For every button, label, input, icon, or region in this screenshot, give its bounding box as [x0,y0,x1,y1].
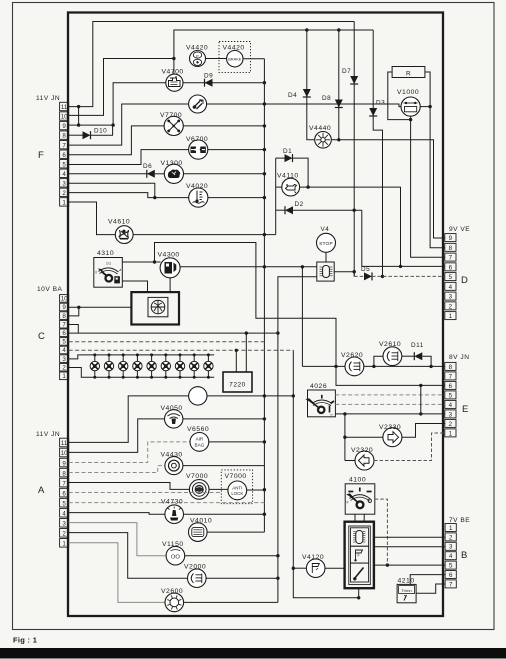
lamp V4420 BRAKE [227,51,243,67]
lamp L9 illumination [207,355,209,362]
wire cluster bottom stub [358,588,360,598]
svg-text:V1000: V1000 [397,89,419,96]
gauge V1000 clock [401,97,420,116]
wire V4050 to left bus [183,418,265,420]
svg-text:4: 4 [449,553,453,560]
diode D8 branch [338,30,340,140]
svg-text:4100: 4100 [349,477,366,484]
svg-text:V6700: V6700 [186,136,208,143]
bottom black bar [0,648,506,659]
dotted option box V4420 BRAKE [219,42,251,73]
connector F pins 11-1 [60,102,69,110]
wire V4110 left stub [276,186,282,188]
svg-text:ANTI: ANTI [232,485,242,490]
wire vertical D1-V4110-D2-V4610 node [275,158,277,235]
svg-text:V2330: V2330 [379,424,401,431]
svg-text:V2000: V2000 [184,564,206,571]
wire V4440 row to pin D9 bus [331,140,445,238]
wire D2 riser to pin D6 row [362,210,445,266]
svg-text:F: F [38,150,44,161]
wire pin C3 to lamp rail top [69,355,215,359]
svg-text:2: 2 [449,421,453,428]
svg-text:4210: 4210 [398,578,415,585]
wire bridge C8-C9 [69,307,79,316]
svg-text:5: 5 [449,392,453,399]
diode D4 branch to V4440 [307,30,315,140]
wire V2330 to pin E2 [402,424,445,438]
svg-text:V2600: V2600 [161,588,183,595]
svg-text:AIR: AIR [196,437,204,442]
wire V4610 row to D1/D2 vertical [133,234,276,236]
wire node riser to pin E6 path [155,243,445,386]
wire pin A10 to V4050 [69,419,165,453]
svg-text:V6560: V6560 [187,426,209,433]
wire pin F3 riser to V4020 row [69,183,155,197]
svg-text:9: 9 [449,235,453,242]
svg-text:R: R [406,70,411,77]
lamp V4050 lamp failure [165,410,183,428]
wire V7700 to left bus [183,125,264,127]
svg-text:3: 3 [449,294,453,301]
svg-text:V4300: V4300 [158,252,180,259]
wire circle to centre bus [207,395,293,397]
svg-text:4026: 4026 [310,383,327,390]
svg-text:V4050: V4050 [161,405,183,412]
svg-text:1: 1 [449,430,453,437]
wire V4730 to left bus [184,513,265,515]
svg-text:11V JN: 11V JN [36,431,60,438]
lamp V2320 left indicator [355,451,374,470]
wire V7000 to dotted option [209,488,228,490]
svg-text:3: 3 [62,520,66,527]
fuel gauge unit 4310 box [94,258,123,288]
svg-text:P: P [196,54,199,58]
svg-text:Tr/mn: Tr/mn [401,588,411,593]
wire 4310 top lead to V4300 node [122,261,160,263]
gauge 4100 box [345,484,375,514]
wire 4210 top lead to pin B6 [410,575,445,585]
rheostat 4026 box [308,390,336,417]
svg-text:F: F [358,554,361,558]
svg-text:7: 7 [449,373,453,380]
wire V4010 to left bus end [207,531,264,533]
wire headlight row to pin E8 [302,365,444,367]
wire pin A4 to V4730 [69,513,165,515]
svg-text:V4610: V4610 [108,219,130,226]
svg-text:D: D [461,275,468,286]
connector A pins 11-1 [60,438,69,447]
svg-text:10: 10 [61,296,68,303]
svg-text:2: 2 [449,534,453,541]
svg-text:2: 2 [449,303,453,310]
wire pin C2 to lamp rail bottom [69,368,215,378]
cluster flag element [351,546,369,563]
wire V2320 to pin E1 [374,433,445,461]
wire V4020 to left bus [208,197,264,199]
svg-text:F: F [347,501,350,505]
svg-text:6: 6 [62,490,66,497]
lamp V2610 dipped beam [383,347,402,366]
svg-text:D9: D9 [204,73,213,80]
svg-text:V1300: V1300 [161,160,183,167]
svg-text:V4420: V4420 [186,45,208,52]
wire 4026 to pin E4 [335,403,444,405]
svg-text:5: 5 [62,339,66,346]
resistor R box [392,67,425,78]
svg-text:11: 11 [61,104,68,111]
svg-text:C: C [38,331,45,342]
diode D2 row to pin D6 [276,209,285,211]
wire pin C5 row [69,341,265,343]
diode D6 [147,170,155,178]
wire cluster rows to pins B2 B3 [374,536,445,538]
lamp L8 illumination [193,355,195,362]
svg-text:OO: OO [171,554,181,560]
wire V4420 to V4420 BRAKE lamp [206,58,227,60]
svg-text:BRAKE: BRAKE [228,56,242,61]
lamp V1150 cruise [166,546,185,565]
lamp V4300 low fuel [160,258,180,278]
wire cluster row to pin B5 [374,564,445,566]
svg-text:1: 1 [62,373,66,380]
lamp V4440 indicator [315,132,332,149]
connector E pins 8-1 [445,362,456,370]
svg-text:3: 3 [62,180,66,187]
lamp V4010 rear demist [189,523,208,542]
wire 4026 to pin E5 [335,394,444,396]
svg-text:D1: D1 [283,148,292,155]
wire 4100 stubs to cluster [354,514,356,522]
svg-text:V4110: V4110 [277,173,299,180]
svg-text:V4010: V4010 [190,518,212,525]
lamp V4430 ring [165,457,183,475]
lamp V4 STOP [317,233,336,252]
lamp U1 unlabeled indicator [189,95,207,113]
svg-text:10: 10 [61,114,68,121]
wire stop box right lead to diode D5 [334,272,354,277]
svg-text:5: 5 [62,500,66,507]
diode D11 [402,355,415,357]
svg-text:9: 9 [62,304,66,311]
lamp V2620 side lights [345,357,364,376]
wire pin F10 riser to lamp feed row [69,59,174,116]
svg-text:5: 5 [449,563,453,570]
wire V4110 row to pin D6 hook [300,187,401,266]
wire pin A9 to V6560 [69,442,190,463]
wire 4210 right lead to pin B7 [416,584,445,593]
svg-text:1: 1 [62,200,66,207]
cluster needle element [351,563,369,582]
wire V4700 left to F9 riser [113,83,166,125]
svg-text:D3: D3 [376,100,385,107]
connector D pins 9-1 [445,234,456,242]
lamp V6560 airbag [190,433,209,452]
wire pin A5 dashed row [69,502,265,504]
wire V6700 to left bus [208,149,265,151]
wire V1150 to bus 278 [185,555,278,557]
svg-text:8: 8 [449,364,453,371]
dotted option box V7000 ANTI LOCK [221,470,252,504]
svg-text:STOP: STOP [319,241,333,247]
svg-text:V4700: V4700 [162,69,184,76]
svg-text:2: 2 [62,530,66,537]
lamp L7 illumination [179,355,181,362]
wire V6560 to left bus [209,441,265,443]
wire pin F2 to V4020 [69,193,189,198]
svg-text:0: 0 [95,271,97,275]
svg-text:10V BA: 10V BA [37,286,62,293]
gauge circle unlabeled [189,387,207,405]
wire 7220 risers [235,350,237,372]
svg-text:1/1: 1/1 [106,262,111,266]
lamp V7000 ABS [189,480,209,500]
lamp V4420 brake warning [190,51,206,67]
svg-text:7: 7 [449,255,453,262]
svg-text:4: 4 [62,171,66,178]
tachometer 4210 box [397,584,416,602]
lamp V1300 engine fault [164,164,183,183]
wire R left lead [388,72,411,120]
wire option to left bus [247,489,265,491]
svg-text:3: 3 [449,544,453,551]
svg-text:6: 6 [449,383,453,390]
wire pin F11 to top line 1 [69,22,355,107]
wire 4026 to pin E3 [335,413,444,415]
wire pin C6 row to bus [69,332,278,334]
controller 7220 box [223,372,252,392]
lamp V4120 fuel flag [306,559,325,578]
wire R right lead to pin D8 [425,72,445,248]
svg-text:V7700: V7700 [160,112,182,119]
wire pin F4 row [69,173,147,175]
svg-text:V2620: V2620 [341,352,363,359]
wire stop riser to headlight row [301,267,303,367]
svg-text:6: 6 [62,330,66,337]
svg-text:7V BE: 7V BE [449,517,470,524]
svg-text:LOCK: LOCK [231,491,243,496]
svg-text:BAG: BAG [195,443,205,448]
wire bridge F11-F9 [78,107,80,126]
lamp L2 illumination [108,355,110,362]
svg-text:4: 4 [62,347,66,354]
svg-text:D10: D10 [94,128,107,135]
wire row 1 to V1000 [207,104,401,107]
svg-text:4: 4 [62,510,66,517]
svg-text:V7000: V7000 [186,473,208,480]
lamp L5 illumination [151,355,153,362]
lamp L3 illumination [122,355,124,362]
wire V1300 to left bus [184,173,265,175]
wire V4420 feed to V4700 [173,59,175,75]
wire pin C4 row to centre bus [69,349,294,351]
wire 4310 lower lead to instrument box [122,281,147,292]
wire V1000 bottom to pin D7 [411,116,445,257]
lamp L1 illumination [94,355,96,362]
diode D3 branch from line 2 [373,30,382,276]
svg-text:D11: D11 [411,342,424,349]
svg-text:3: 3 [62,356,66,363]
lamp V7000 ANTI LOCK option [228,481,247,500]
svg-text:5: 5 [62,161,66,168]
svg-text:1: 1 [449,313,453,320]
lamp L4 illumination [136,355,138,362]
wire pin F7 to row 1 [69,104,189,145]
svg-text:V4120: V4120 [302,554,324,561]
svg-text:D2: D2 [295,201,304,208]
svg-text:8: 8 [449,245,453,252]
wire V4300 bottom stub [169,278,171,292]
svg-text:4: 4 [449,402,453,409]
svg-text:Fig : 1: Fig : 1 [13,636,37,645]
lamp V2330 right indicator [383,428,402,447]
svg-text:2: 2 [62,364,66,371]
diode D7 on line 1 bus [353,22,355,277]
lamp V4020 temperature [189,188,208,207]
diode D5 row to pin D5 [354,275,364,277]
svg-text:D8: D8 [322,95,331,102]
svg-text:V4730: V4730 [161,499,183,506]
svg-text:4: 4 [449,284,453,291]
wire 4100 right lead to pin B5 node [375,499,388,565]
svg-text:E: E [462,404,469,415]
wire pin A1 to V2600 [69,543,165,603]
svg-text:3: 3 [449,411,453,418]
wire bridge C7-C6 [69,325,79,334]
svg-text:V4440: V4440 [309,125,331,132]
diode D10 on pin F8 row [69,134,83,136]
wire V1000 right lead [420,106,430,108]
svg-text:A: A [38,485,45,496]
svg-text:V2320: V2320 [351,447,373,454]
svg-text:6: 6 [62,152,66,159]
svg-text:2: 2 [62,190,66,197]
svg-text:5: 5 [449,274,453,281]
svg-text:B: B [461,550,468,561]
lamp V4610 seat belt [115,226,133,244]
svg-text:11V JN: 11V JN [36,95,60,102]
svg-text:9V VE: 9V VE [449,226,470,233]
wire riser to V2330 and V2320 [344,414,346,461]
wire pin F6 to V7700 [69,126,164,155]
lamp V7700 hazard [164,116,183,135]
lamp V2000 main beam [188,569,207,588]
svg-text:7: 7 [62,480,66,487]
svg-text:1: 1 [62,541,66,548]
svg-text:8V JN: 8V JN [449,354,469,361]
svg-text:7220: 7220 [229,382,246,389]
wire pin A7 to V7000 [69,483,190,490]
cluster coil element [351,528,369,546]
lamp V4110 oil pressure [282,178,300,196]
svg-text:V4430: V4430 [161,452,183,459]
wire pin A3 to V1150 [69,523,166,556]
svg-text:9: 9 [62,123,66,130]
svg-text:8: 8 [62,470,66,477]
wire stop box lower-left lead to bus 278 [278,277,317,603]
wire E6-E3 bridge riser [420,385,422,414]
wire V4 stub to stop box [325,252,327,262]
svg-text:D5: D5 [361,266,370,273]
svg-text:10: 10 [61,450,68,457]
svg-text:9: 9 [62,460,66,467]
lamp L6 illumination [165,355,167,362]
wire V2000 to bus 278 [206,577,278,579]
svg-text:D4: D4 [288,92,297,99]
svg-text:7: 7 [62,321,66,328]
wire pin A11 to gauge circle [69,396,189,443]
svg-text:4310: 4310 [97,250,114,257]
wire riser to top line 2 [174,30,373,59]
wire V2600 to bus 278 [184,601,278,603]
lamp V2600 fog [165,593,184,612]
svg-text:V7000: V7000 [225,473,247,480]
wire pin A8 to V4430 [69,466,165,473]
diode D9 [183,82,265,84]
instrument box 7700 fan unit [131,292,179,324]
wire pin F9 row [69,124,113,126]
wire pin C9 row to instrument box [69,306,132,308]
wire BRAKE lamp to left bus [243,58,264,60]
wire riser to V2610 [374,356,383,366]
svg-text:V4020: V4020 [186,183,208,190]
svg-text:8: 8 [62,133,66,140]
svg-text:11: 11 [61,440,68,447]
diode D1 row [276,157,285,159]
svg-text:D6: D6 [143,163,152,170]
centre bus C4 to bottom rail [293,350,358,598]
stop switch box [317,262,334,281]
main diagram box border [68,13,443,617]
wire V4430 to left bus [183,465,265,467]
wire V4120 leads [293,567,306,569]
connector B pins 1-7 [445,524,456,532]
svg-text:8: 8 [62,313,66,320]
lamp V6700 lighting [189,140,208,159]
left vertical bus [263,59,265,532]
svg-text:6: 6 [449,572,453,579]
wire V2330 row [345,436,383,438]
lamp V4700 engine warning [166,74,183,91]
svg-text:V2610: V2610 [379,341,401,348]
wire pin A2 to V2000 [69,533,188,579]
svg-text:1: 1 [449,525,453,532]
svg-text:V1150: V1150 [162,541,184,548]
svg-text:7: 7 [449,581,453,588]
wire pin F1 to V4610 [69,202,116,235]
wire stop box upper-left lead to V4300 [180,266,317,268]
lamp V4730 brake fluid [165,505,184,524]
svg-text:V4: V4 [321,226,330,233]
svg-text:7: 7 [62,142,66,149]
connector C pins 10-1 [60,295,69,303]
instrument cluster box [345,522,374,589]
svg-text:6: 6 [449,264,453,271]
wire V2320 row [345,460,355,462]
svg-text:D7: D7 [342,68,351,75]
wire pin A6 dashed row [69,492,222,494]
wire pin F5 to V6700 [69,150,189,165]
